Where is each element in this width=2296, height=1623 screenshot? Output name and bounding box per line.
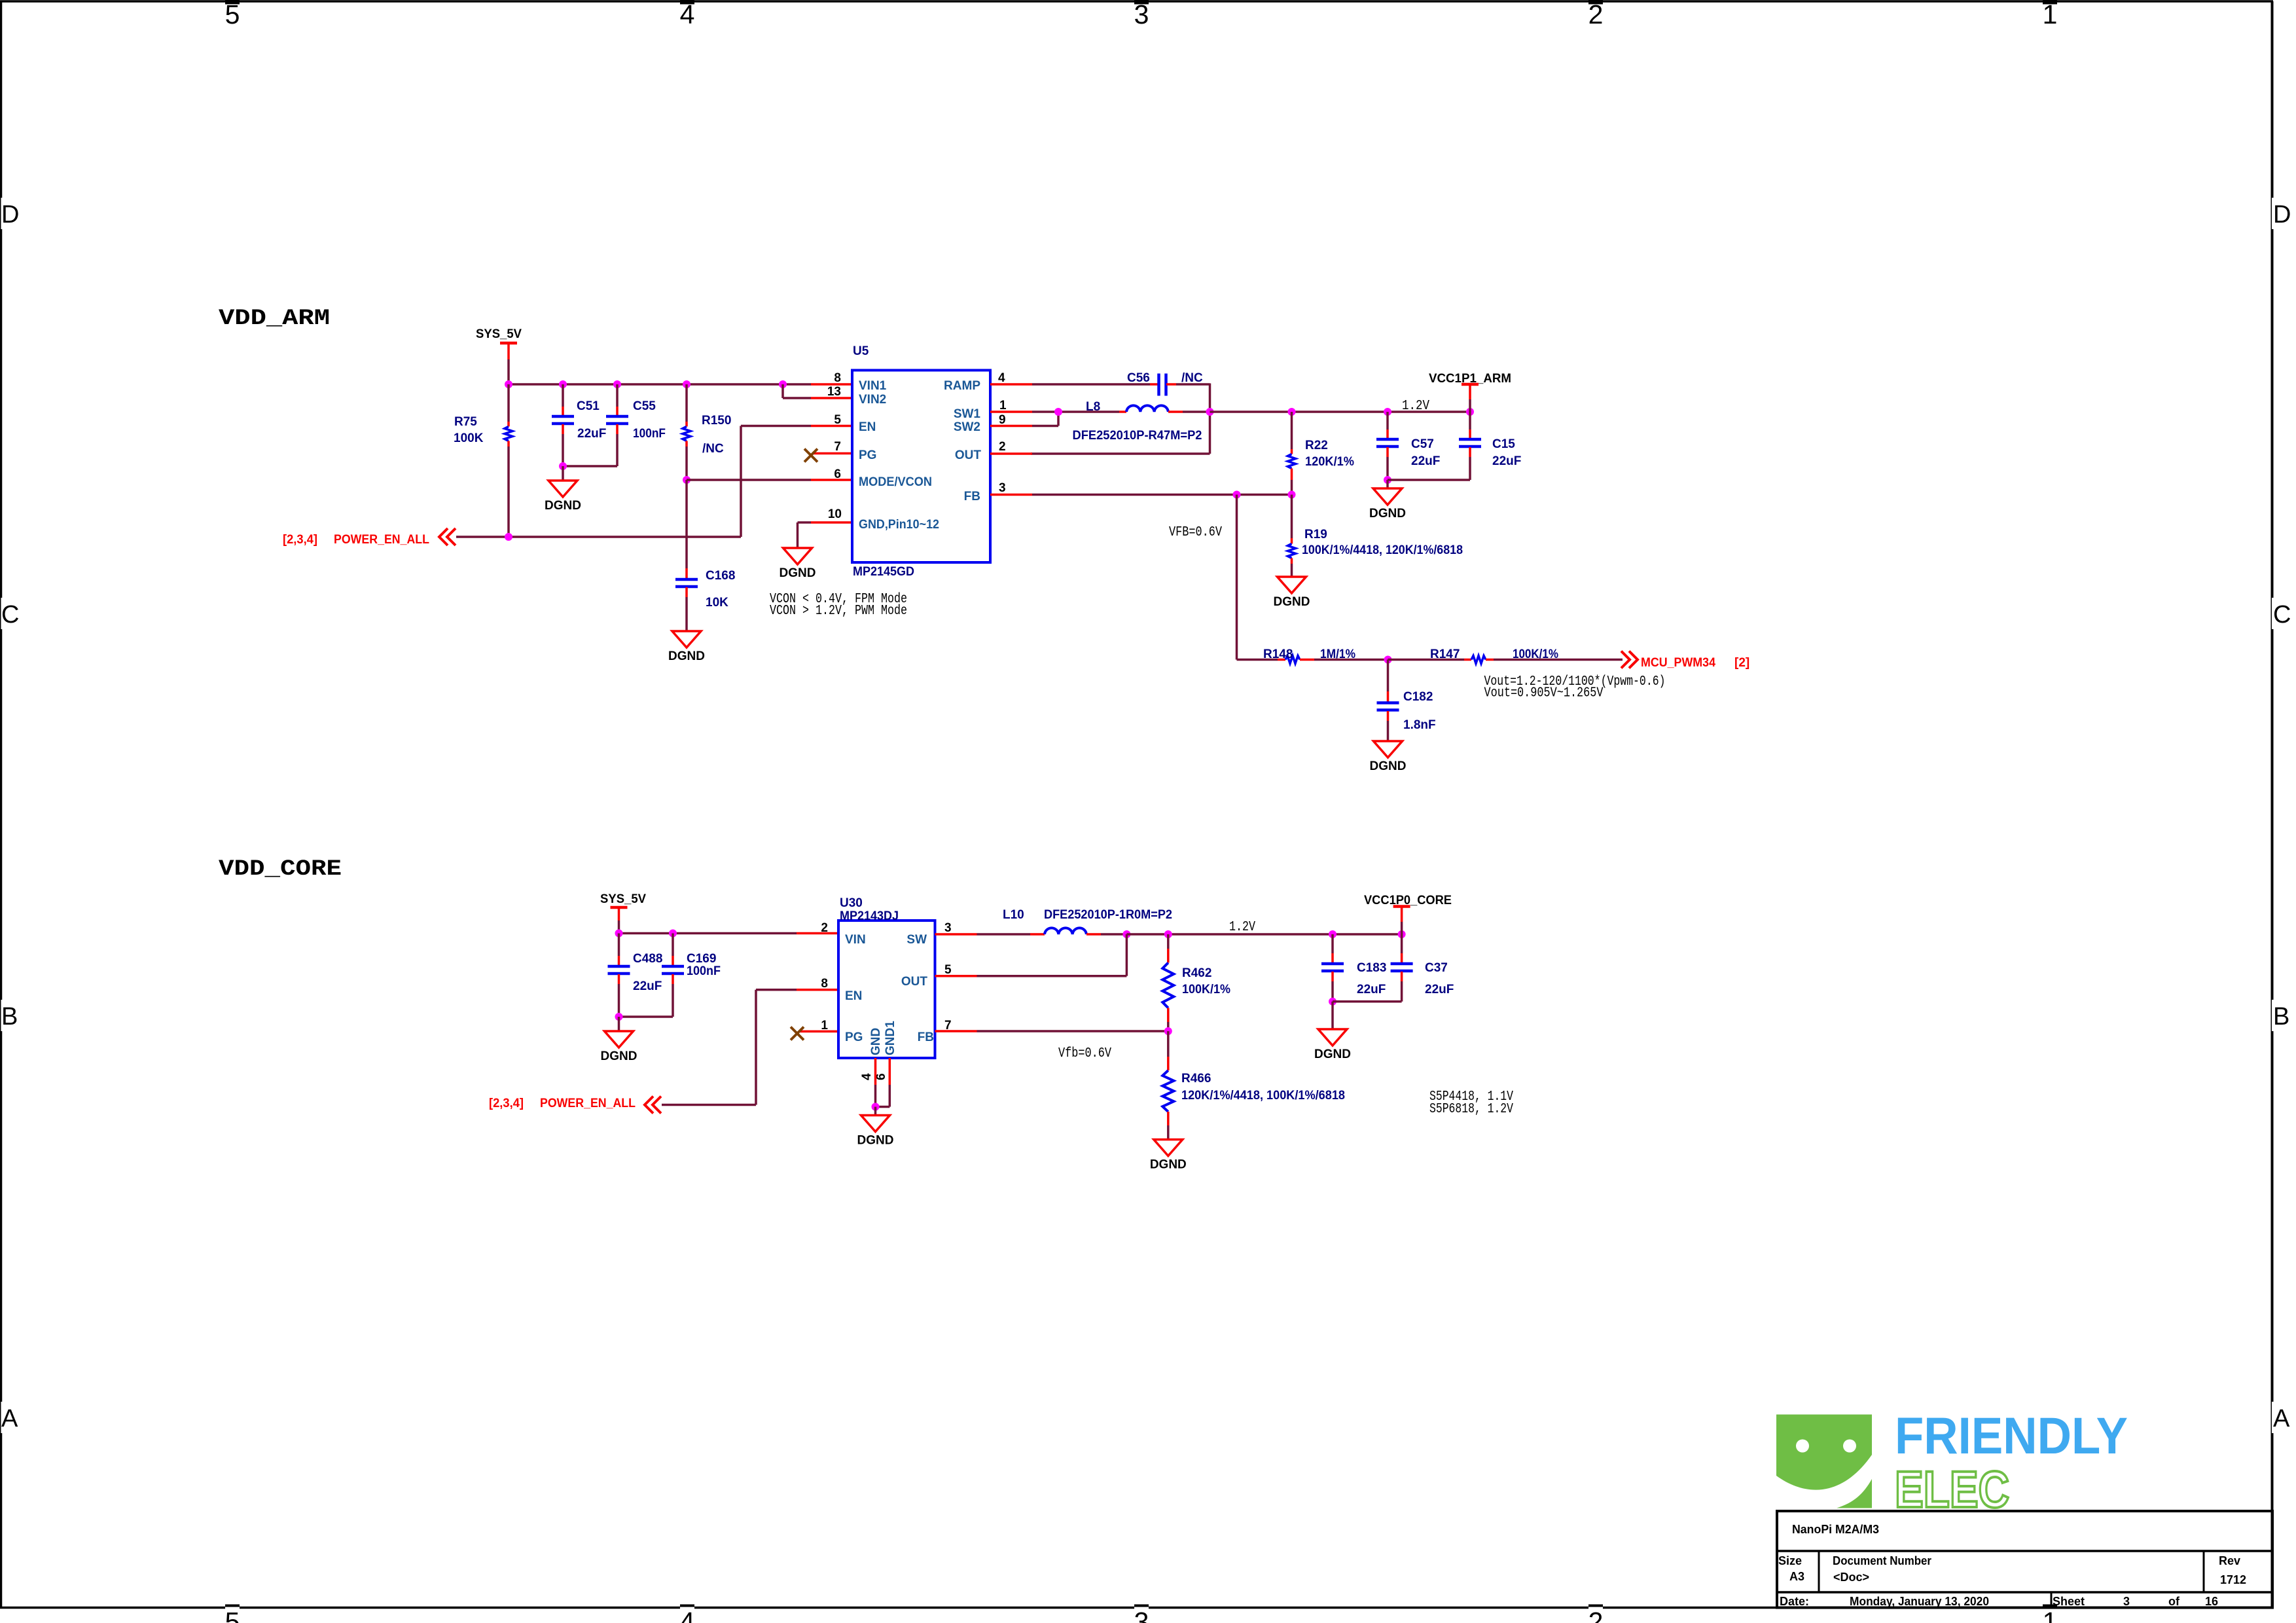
pin 2 OUT stub: [990, 452, 1032, 455]
svg-text:/NC: /NC: [702, 442, 724, 456]
capacitor C168 10K: [675, 568, 735, 631]
wire FB net: [1032, 494, 1292, 496]
inductor L8 DFE252010P-R47M=P2: [1073, 400, 1202, 443]
wire R147 to MCU_PWM34 connector: [1494, 659, 1623, 661]
svg-text:S5P6818, 1.2V: S5P6818, 1.2V: [1429, 1102, 1513, 1117]
svg-text:1: 1: [821, 1019, 828, 1032]
resistor R462 100K/1%: [1162, 934, 1230, 1031]
svg-text:100nF: 100nF: [687, 964, 721, 978]
power symbol VCC1P0_CORE: [1364, 894, 1452, 934]
ground DGND under R466: [1150, 1140, 1187, 1172]
wire junction to DGND (U30): [874, 1107, 877, 1116]
svg-text:D: D: [1, 201, 19, 228]
wire EN net: [741, 426, 811, 538]
wire VIN2 branch: [783, 384, 811, 398]
svg-text:EN: EN: [859, 420, 876, 434]
svg-text:SW1: SW1: [954, 407, 981, 421]
svg-text:/NC: /NC: [1181, 371, 1203, 385]
svg-text:R22: R22: [1305, 439, 1328, 452]
wire EN net (CORE): [662, 990, 797, 1105]
svg-text:22uF: 22uF: [577, 427, 606, 441]
svg-text:[2,3,4]: [2,3,4]: [283, 533, 317, 547]
svg-text:OUT: OUT: [955, 448, 982, 462]
ground DGND under C168: [668, 631, 705, 663]
svg-text:DGND: DGND: [857, 1134, 894, 1148]
svg-text:C37: C37: [1425, 961, 1448, 975]
ground DGND under C51: [545, 481, 581, 513]
note Vout formulas: [1484, 674, 1666, 701]
svg-text:POWER_EN_ALL: POWER_EN_ALL: [540, 1097, 636, 1110]
node bus/C51 junction: [559, 380, 567, 388]
pin 3 SW stub: [935, 933, 977, 936]
svg-text:D: D: [2273, 201, 2291, 228]
wire C57 to C15 ground link: [1388, 479, 1470, 481]
pin 6 MODE stub: [811, 479, 852, 481]
svg-text:1.8nF: 1.8nF: [1403, 718, 1436, 732]
svg-text:C: C: [2273, 601, 2291, 629]
node C183/C37 ground junction: [1329, 998, 1336, 1006]
U30 GND pin stubs: [876, 1058, 890, 1107]
wire RAMP to C56: [1032, 383, 1150, 386]
wire node to R147: [1388, 659, 1465, 661]
wire L10 to output node: [1101, 933, 1126, 936]
svg-text:R148: R148: [1263, 647, 1293, 661]
svg-text:8: 8: [821, 977, 828, 991]
wire C183 to C37 ground link: [1333, 1000, 1402, 1003]
capacitor C169 100nF: [662, 934, 721, 1017]
node C57 top junction: [1384, 408, 1391, 416]
pin 7 PG stub: [812, 452, 852, 455]
svg-text:22uF: 22uF: [1357, 983, 1386, 996]
resistor R147 100K/1%: [1430, 647, 1558, 664]
svg-text:Document Number: Document Number: [1833, 1554, 1931, 1567]
resistor R22 120K/1%: [1288, 412, 1355, 495]
svg-text:[2]: [2]: [1734, 656, 1749, 670]
wire C57 junction to DGND: [1386, 480, 1389, 488]
svg-text:1712: 1712: [2220, 1573, 2246, 1586]
svg-text:B: B: [1, 1003, 18, 1030]
svg-text:U5: U5: [853, 344, 869, 358]
svg-text:120K/1%: 120K/1%: [1305, 455, 1354, 469]
svg-text:120K/1%/4418, 100K/1%/6818: 120K/1%/4418, 100K/1%/6818: [1181, 1089, 1345, 1103]
svg-text:C488: C488: [633, 952, 662, 966]
svg-text:DFE252010P-R47M=P2: DFE252010P-R47M=P2: [1073, 429, 1202, 443]
svg-text:PG: PG: [859, 448, 876, 462]
svg-text:of: of: [2168, 1595, 2180, 1608]
svg-text:10: 10: [828, 507, 842, 521]
zone row labels right: [2271, 198, 2291, 1433]
zone row labels left: [0, 198, 19, 1433]
power symbol SYS_5V (CORE): [600, 892, 646, 921]
net POWER_EN_ALL (CORE): [489, 1097, 636, 1110]
svg-text:7: 7: [834, 440, 841, 454]
U5 pin numbers: [827, 371, 1007, 521]
svg-text:C169: C169: [687, 952, 716, 966]
svg-text:100K: 100K: [454, 431, 484, 445]
svg-text:VDD_ARM: VDD_ARM: [219, 306, 330, 331]
svg-text:Vout=0.905V~1.265V: Vout=0.905V~1.265V: [1484, 686, 1604, 701]
svg-text:1: 1: [2043, 1607, 2058, 1623]
no-connect X on PG (U30): [791, 1027, 804, 1040]
svg-text:C15: C15: [1492, 437, 1515, 451]
svg-text:FB: FB: [964, 490, 980, 503]
svg-text:DGND: DGND: [1369, 507, 1406, 520]
svg-text:R462: R462: [1182, 966, 1211, 980]
ground DGND under U30: [857, 1116, 894, 1148]
wire L8 to output node: [1183, 410, 1210, 413]
wire VCC1P0 1.2V net: [1126, 933, 1401, 936]
op-amp U5 MP2145GD body: [852, 344, 990, 579]
svg-text:3: 3: [999, 481, 1006, 495]
wire SW1 to L8: [1032, 410, 1119, 413]
net POWER_EN_ALL (ARM): [283, 533, 429, 547]
capacitor C488 22uF: [608, 934, 663, 1017]
svg-text:R19: R19: [1304, 528, 1327, 541]
capacitor C182 1.8nF: [1377, 660, 1436, 742]
wire SYS_5V to bus: [507, 359, 510, 384]
svg-text:DGND: DGND: [1274, 595, 1310, 609]
capacitor C15 22uF: [1459, 412, 1521, 480]
svg-text:FRIENDLY: FRIENDLY: [1895, 1406, 2128, 1465]
svg-text:5: 5: [944, 963, 952, 977]
svg-text:3: 3: [2123, 1595, 2130, 1608]
svg-text:5: 5: [225, 0, 240, 29]
pin 10 GND stub: [811, 521, 852, 524]
capacitor C51 22uF: [552, 384, 606, 466]
wire junction to DGND (C183): [1331, 1002, 1334, 1029]
svg-text:DGND: DGND: [1150, 1158, 1187, 1172]
svg-text:2: 2: [1588, 1607, 1604, 1623]
node R462 top junction: [1164, 930, 1172, 938]
ground DGND under C57: [1369, 488, 1406, 520]
ground DGND under R19: [1274, 577, 1310, 609]
svg-text:C182: C182: [1403, 690, 1433, 704]
svg-text:100nF: 100nF: [633, 427, 666, 441]
svg-text:4: 4: [860, 1073, 874, 1080]
svg-text:R147: R147: [1430, 647, 1460, 661]
node FB/R22/R19 junction: [1288, 491, 1296, 499]
capacitor C57 22uF: [1376, 412, 1440, 480]
title block text: [1778, 1523, 2246, 1608]
node FB/VFB junction: [1233, 491, 1241, 499]
ground DGND under C488: [601, 1031, 637, 1063]
svg-text:2: 2: [821, 921, 828, 935]
svg-text:5: 5: [225, 1607, 240, 1623]
net label MCU_PWM34 [2]: [1641, 656, 1749, 670]
resistor R19: [1288, 495, 1463, 577]
zone column labels bottom: [225, 1605, 2058, 1623]
svg-text:4: 4: [680, 0, 695, 29]
wire SW2 up to SW1: [1032, 412, 1058, 426]
svg-text:VDD_CORE: VDD_CORE: [219, 857, 342, 882]
wire R150 junction down to C168: [685, 480, 688, 568]
svg-text:GND: GND: [869, 1028, 883, 1055]
pin 9 SW2 stub: [990, 425, 1032, 428]
svg-text:DGND: DGND: [1314, 1048, 1351, 1061]
svg-text:SW2: SW2: [954, 420, 980, 434]
node C57/C15 ground junction: [1384, 476, 1391, 484]
svg-text:C55: C55: [633, 399, 656, 413]
svg-text:2: 2: [1588, 0, 1604, 29]
svg-text:VFB=0.6V: VFB=0.6V: [1169, 525, 1222, 540]
svg-text:PG: PG: [845, 1030, 863, 1044]
note S5P4418/S5P6818 voltages: [1429, 1089, 1513, 1117]
node bus/C169 junction: [669, 930, 677, 938]
svg-text:VIN2: VIN2: [859, 393, 886, 407]
svg-text:R150: R150: [702, 414, 731, 428]
svg-text:RAMP: RAMP: [944, 379, 980, 393]
svg-text:C57: C57: [1411, 437, 1434, 451]
svg-text:MODE/VCON: MODE/VCON: [859, 475, 932, 489]
node FB/R462/R466 junction: [1164, 1027, 1172, 1035]
svg-text:VCON > 1.2V, PWM Mode: VCON > 1.2V, PWM Mode: [770, 604, 907, 619]
node R150/MODE junction: [683, 476, 691, 484]
note VCON modes: [770, 592, 907, 619]
power symbol VCC1P1_ARM: [1429, 372, 1511, 412]
wire SYS_5V core to bus: [618, 921, 620, 934]
svg-text:100K/1%/4418, 120K/1%/6818: 100K/1%/4418, 120K/1%/6818: [1302, 543, 1463, 557]
node bus/VIN2 junction: [779, 380, 787, 388]
svg-text:R466: R466: [1181, 1072, 1211, 1085]
ground DGND under U5 pin10: [780, 548, 816, 580]
node L10/OUT junction: [1122, 930, 1130, 938]
pin 5 EN stub: [811, 425, 852, 428]
svg-text:22uF: 22uF: [1492, 454, 1521, 468]
svg-text:DGND: DGND: [601, 1049, 637, 1063]
svg-text:22uF: 22uF: [633, 979, 662, 993]
svg-text:VIN: VIN: [845, 933, 866, 947]
U30 pin numbers: [821, 921, 952, 1080]
wire FB net (CORE): [977, 1030, 1168, 1032]
svg-text:5: 5: [834, 413, 841, 427]
node bus/C488 junction: [615, 930, 623, 938]
capacitor C56 /NC: [1127, 371, 1203, 396]
svg-text:L10: L10: [1003, 908, 1024, 922]
svg-text:22uF: 22uF: [1425, 983, 1454, 996]
node C488 ground junction: [615, 1013, 623, 1021]
wire R148 to C182 node: [1314, 659, 1388, 661]
svg-text:A: A: [2273, 1405, 2290, 1432]
svg-text:C56: C56: [1127, 371, 1150, 385]
svg-text:MCU_PWM34: MCU_PWM34: [1641, 656, 1715, 670]
svg-text:A3: A3: [1789, 1570, 1804, 1583]
svg-text:6: 6: [834, 467, 841, 481]
pin 1 PG stub (U30): [798, 1030, 838, 1033]
FriendlyElec logo mark: [1776, 1415, 1872, 1508]
svg-text:MP2143DJ: MP2143DJ: [840, 909, 899, 923]
node C51 ground junction: [559, 462, 567, 470]
pin 3 FB stub: [990, 494, 1032, 496]
svg-text:DGND: DGND: [780, 566, 816, 580]
svg-text:Sheet: Sheet: [2053, 1595, 2085, 1608]
power symbol SYS_5V (ARM): [476, 327, 522, 359]
svg-text:C: C: [1, 601, 19, 629]
svg-text:GND,Pin10~12: GND,Pin10~12: [859, 518, 939, 532]
svg-text:OUT: OUT: [901, 975, 928, 989]
svg-text:1.2V: 1.2V: [1229, 920, 1255, 935]
ground DGND under C182: [1370, 741, 1407, 773]
svg-text:GND1: GND1: [884, 1021, 897, 1055]
node POWER_EN/R75 junction: [505, 533, 512, 541]
svg-text:Size: Size: [1778, 1554, 1802, 1567]
svg-text:Vfb=0.6V: Vfb=0.6V: [1058, 1046, 1111, 1061]
wire ARM input bus: [508, 383, 812, 386]
pin 8 VIN1 stub: [811, 383, 852, 386]
svg-text:DGND: DGND: [1370, 759, 1407, 773]
node VCC1P1/C15 junction: [1466, 408, 1474, 416]
svg-text:ELEC: ELEC: [1895, 1460, 2009, 1518]
node bus/SYS_5V junction: [505, 380, 512, 388]
pin 7 FB stub: [935, 1030, 977, 1032]
inductor L10 DFE252010P-1R0M=P2: [1003, 908, 1172, 934]
svg-text:B: B: [2273, 1003, 2289, 1030]
svg-text:3: 3: [1134, 0, 1149, 29]
svg-text:DGND: DGND: [545, 499, 581, 513]
wire C488/C169 ground link: [619, 1015, 673, 1018]
wire VFB to R148: [1237, 495, 1278, 660]
wire SW to L10: [977, 933, 1031, 936]
capacitor C183 22uF: [1321, 934, 1386, 1002]
wire C51/C55 ground link: [563, 465, 617, 467]
resistor R148 1M/1%: [1263, 647, 1355, 664]
svg-text:4: 4: [998, 371, 1005, 385]
svg-text:SYS_5V: SYS_5V: [476, 327, 522, 341]
ground DGND under C183: [1314, 1029, 1351, 1061]
svg-text:U30: U30: [840, 896, 863, 910]
svg-text:4: 4: [680, 1607, 695, 1623]
wire C56 to OUT loop: [1031, 384, 1210, 454]
svg-text:EN: EN: [845, 989, 862, 1003]
off-page connector POWER_EN_ALL (ARM): [439, 528, 456, 545]
pin 1 SW1 stub: [990, 410, 1032, 413]
node bus/C55 junction: [613, 380, 621, 388]
node L8/C56/OUT junction: [1206, 408, 1214, 416]
pin 2 VIN stub: [797, 932, 838, 935]
svg-text:<Doc>: <Doc>: [1833, 1571, 1869, 1584]
svg-text:Monday, January 13, 2020: Monday, January 13, 2020: [1850, 1595, 1989, 1608]
svg-text:SYS_5V: SYS_5V: [600, 892, 646, 906]
resistor R150 /NC: [683, 384, 731, 480]
svg-text:VIN1: VIN1: [859, 379, 887, 393]
node U30 GND junction: [872, 1103, 880, 1111]
svg-text:22uF: 22uF: [1411, 454, 1440, 468]
svg-text:Rev: Rev: [2219, 1554, 2240, 1567]
svg-text:DFE252010P-1R0M=P2: DFE252010P-1R0M=P2: [1044, 908, 1172, 922]
svg-text:13: 13: [827, 385, 841, 399]
wire GND pin10 net: [798, 522, 812, 548]
resistor R466: [1162, 1031, 1345, 1140]
svg-text:[2,3,4]: [2,3,4]: [489, 1097, 524, 1110]
node C183 top junction: [1329, 930, 1336, 938]
svg-text:A: A: [1, 1405, 18, 1432]
off-page connector POWER_EN_ALL (CORE): [645, 1097, 661, 1114]
svg-text:POWER_EN_ALL: POWER_EN_ALL: [334, 533, 429, 547]
svg-text:1: 1: [2043, 0, 2058, 29]
wire POWER_EN_ALL (ARM): [456, 536, 741, 538]
svg-text:16: 16: [2205, 1595, 2218, 1608]
off-page connector MCU_PWM34: [1621, 651, 1638, 668]
svg-text:2: 2: [999, 440, 1006, 454]
svg-text:C168: C168: [706, 569, 735, 583]
pin 4 RAMP stub: [990, 383, 1032, 386]
node bus/R150 junction: [683, 380, 691, 388]
capacitor C37 22uF: [1391, 934, 1454, 1002]
node R22 top junction: [1288, 408, 1296, 416]
node SW1/SW2 junction: [1054, 408, 1062, 416]
resistor R75 100K: [454, 384, 512, 537]
title block frame: [1777, 1511, 2272, 1608]
svg-text:NanoPi M2A/M3: NanoPi M2A/M3: [1792, 1523, 1879, 1536]
no-connect X on PG (U5): [804, 449, 817, 462]
wire junction to DGND core: [618, 1017, 620, 1031]
wire OUT to output node: [977, 934, 1127, 976]
node VCC1P0/C37 junction: [1398, 930, 1406, 938]
wire MODE/VCON net: [687, 479, 811, 481]
pin 13 VIN2 stub: [811, 397, 852, 399]
svg-text:R75: R75: [454, 415, 477, 429]
svg-text:L8: L8: [1086, 400, 1100, 414]
svg-text:Date:: Date:: [1780, 1595, 1809, 1608]
svg-text:8: 8: [834, 371, 841, 385]
svg-text:MP2145GD: MP2145GD: [853, 565, 914, 579]
op-amp U30 MP2143DJ body: [838, 896, 935, 1058]
wire CORE input bus: [618, 932, 797, 935]
svg-text:FB: FB: [918, 1030, 934, 1044]
capacitor C55 100nF: [606, 384, 666, 466]
svg-text:C51: C51: [577, 399, 600, 413]
U30 pin names: [845, 933, 934, 1055]
svg-text:3: 3: [1134, 1607, 1149, 1623]
svg-text:10K: 10K: [706, 596, 728, 610]
wire VCC1P1 1.2V net: [1210, 410, 1471, 413]
pin 5 OUT stub: [935, 975, 977, 977]
svg-text:1: 1: [999, 399, 1007, 412]
svg-text:3: 3: [944, 921, 952, 935]
svg-text:1.2V: 1.2V: [1402, 399, 1429, 414]
wire to DGND under C51: [562, 466, 564, 481]
zone column labels top: [225, 0, 2058, 29]
svg-text:DGND: DGND: [668, 649, 705, 663]
svg-text:C183: C183: [1357, 961, 1386, 975]
node R147/R148/C182 junction: [1384, 656, 1392, 664]
pin 8 EN stub: [797, 989, 838, 991]
svg-text:100K/1%: 100K/1%: [1182, 983, 1230, 996]
U5 pin names: [859, 379, 981, 532]
svg-text:SW: SW: [906, 933, 927, 947]
